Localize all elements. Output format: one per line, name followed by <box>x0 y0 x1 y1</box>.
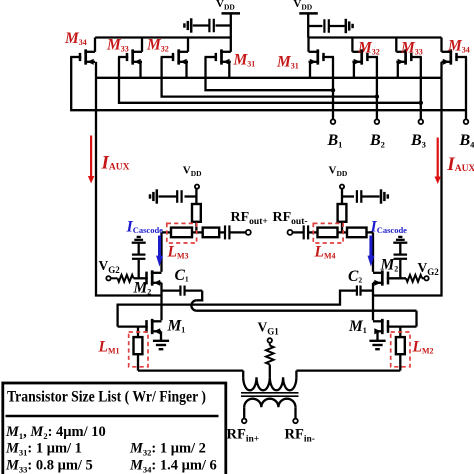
wire IAUX right <box>373 78 442 296</box>
ground (mid right, sideways) <box>381 189 388 203</box>
label M31 (left) <box>233 52 256 69</box>
decoupling capacitor (top right) <box>308 19 345 33</box>
wire drain M33 right <box>395 38 397 52</box>
wire source rail <box>96 77 442 79</box>
table row M34 <box>129 458 217 474</box>
wire drain M31 right <box>307 38 309 52</box>
label M31 (right) <box>276 54 299 71</box>
table border <box>3 383 226 474</box>
label M1 (left) <box>167 318 186 335</box>
transistor M2 (right) <box>373 270 389 286</box>
node B3 junction <box>419 101 423 105</box>
svg-text:VDD: VDD <box>216 0 235 12</box>
svg-text:Transistor Size List ( Wr/ Fin: Transistor Size List ( Wr/ Finger ) <box>7 389 206 406</box>
transistor M33 (right bank) <box>396 49 422 65</box>
wire M2 source / M1 drain left <box>160 283 162 321</box>
ground (top right, sideways) <box>346 19 353 33</box>
label ICascode right <box>370 219 408 236</box>
transistor M34 (right bank) <box>442 49 468 65</box>
ground (mid left, sideways) <box>150 189 157 203</box>
terminal B1 <box>331 119 336 124</box>
label C2 <box>348 268 362 285</box>
wire drain M31 left <box>230 38 232 52</box>
wire bus B1 <box>206 57 334 90</box>
wire drain M32 right <box>351 38 353 52</box>
table row M33 <box>5 458 93 474</box>
wire cross-couple A <box>118 291 353 327</box>
terminal RFout+ <box>246 230 251 235</box>
inductor output left <box>203 228 220 238</box>
table row M1 M2 <box>5 424 106 441</box>
label IAUX left <box>101 152 130 173</box>
label RFout+ <box>231 210 268 227</box>
label M32 <box>146 37 169 54</box>
label M32 (right) <box>357 40 380 57</box>
arrow ICascode right <box>368 236 375 267</box>
capacitor bypass VG2 left <box>132 243 146 278</box>
label LM3 <box>167 244 189 261</box>
inductor LM2 <box>396 327 405 371</box>
inductor feed (mid right) <box>338 204 347 232</box>
transformer secondary winding <box>244 399 295 419</box>
wire LM2 to transformer <box>296 369 400 371</box>
transistor M31 (left bank) <box>205 49 231 65</box>
arrow IAUX left <box>88 136 94 184</box>
wire M1 gate left <box>118 325 147 327</box>
wire M2 drain riser left <box>160 232 162 271</box>
terminal RFin- <box>293 419 298 424</box>
node B2 junction <box>375 94 379 98</box>
power VDD supply (mid left) <box>183 165 202 205</box>
wire M2 source / M1 drain right <box>372 283 374 321</box>
ground VG2 left (up) <box>132 237 146 243</box>
node B1 junction <box>331 88 335 92</box>
svg-text:M34: 1.4 μm/ 6: M34: 1.4 μm/ 6 <box>129 458 217 474</box>
label LM4 <box>314 244 336 261</box>
label M34 (right) <box>447 38 470 55</box>
decoupling capacitor (mid left) <box>159 190 197 203</box>
inductor LM3 <box>171 228 192 238</box>
wire source M32 left <box>185 62 187 78</box>
ground M1 left <box>153 331 169 349</box>
box LM1 (dashed) <box>129 332 148 367</box>
capacitor C1 <box>162 286 203 296</box>
terminal B3 <box>419 119 424 124</box>
wire source M32 right <box>353 62 355 78</box>
box LM2 (dashed) <box>391 332 410 367</box>
transistor M33 (left bank) <box>118 49 142 65</box>
wire VDD rail (left bank) <box>95 36 231 38</box>
power VDD supply (mid right) <box>329 165 348 205</box>
label B2 <box>369 132 385 150</box>
transistor M32 (left bank) <box>161 49 188 65</box>
wire LM1 to transformer <box>138 369 243 371</box>
wire cross-couple B with hop <box>191 291 416 311</box>
terminal RFout- <box>288 230 293 235</box>
wire output axis left <box>162 231 246 233</box>
wire drain M33 left <box>141 38 143 52</box>
wire M1 gate right <box>388 311 417 327</box>
terminal RFin+ <box>242 419 247 424</box>
decoupling capacitor (mid right) <box>342 190 380 203</box>
wire source M33 right <box>397 62 399 78</box>
label LM1 <box>98 339 120 356</box>
transistor M34 (left bank) <box>70 49 95 65</box>
power VDD supply (top right) <box>293 0 317 38</box>
wire source M34 left <box>95 62 97 78</box>
decoupling capacitor (top left) <box>193 19 231 33</box>
svg-text:M31: 1 μm/ 1: M31: 1 μm/ 1 <box>5 441 82 458</box>
arrow ICascode left <box>156 236 163 267</box>
terminal B2 <box>375 119 380 124</box>
label M2 (left) <box>133 280 152 297</box>
inductor LM1 <box>134 327 143 371</box>
label M33 <box>106 37 129 54</box>
transistor M2 (left) <box>146 270 162 286</box>
transistor M1 (right) <box>373 319 389 335</box>
ground (top left, sideways) <box>184 18 191 32</box>
wire B2 riser <box>376 57 378 119</box>
wire B3 riser <box>420 57 422 119</box>
wire source M31 left <box>228 62 230 78</box>
label LM2 <box>412 339 434 356</box>
transistor M1 (left) <box>146 319 162 335</box>
box LM3 (dashed) <box>167 223 197 243</box>
wire B4 riser <box>465 57 467 119</box>
wire bus B3 <box>119 57 421 103</box>
wire source M31 right <box>309 62 311 78</box>
transformer core <box>241 393 299 396</box>
wire drain M34 left <box>94 38 96 52</box>
ground M1 right <box>369 331 385 349</box>
wire source M33 left <box>139 62 141 78</box>
transformer primary winding <box>243 371 296 391</box>
capacitor output left <box>225 225 229 239</box>
power VDD supply (top left) <box>216 0 240 38</box>
svg-text:M32: 1 μm/ 2: M32: 1 μm/ 2 <box>129 441 206 458</box>
inductor LM4 <box>318 228 338 238</box>
inductor drain right <box>347 228 367 238</box>
capacitor bypass VG2 right <box>394 243 408 278</box>
terminal VG2 right <box>418 260 440 280</box>
label RFout- <box>273 210 308 227</box>
transistor M31 (right bank) <box>309 49 335 65</box>
label M34 <box>64 30 87 47</box>
terminal VG1 <box>258 320 280 343</box>
label C1 <box>175 267 189 284</box>
table title <box>7 389 206 406</box>
svg-text:VDD: VDD <box>293 0 312 12</box>
table rule <box>6 415 219 418</box>
resistor VG2 right <box>389 275 425 282</box>
arrow IAUX right <box>435 138 441 185</box>
wire VDD rail (right bank) <box>308 36 441 38</box>
capacitor output right <box>304 225 308 239</box>
label M2 (right) <box>380 257 399 274</box>
table row M31 <box>5 441 82 458</box>
terminal VG2 left <box>99 258 121 280</box>
wire drain M34 right <box>440 38 442 52</box>
inductor feed (mid left) <box>192 204 201 232</box>
capacitor C2 <box>352 286 374 296</box>
wire M2 drain riser right <box>372 232 374 271</box>
label RFin- <box>285 427 315 445</box>
label ICascode left <box>126 219 164 236</box>
resistor VG1 <box>266 343 274 378</box>
wire output axis right <box>293 231 374 233</box>
wire bus B2 <box>162 57 377 97</box>
wire B1 riser <box>332 57 334 119</box>
label B1 <box>327 132 343 150</box>
label IAUX right <box>446 154 474 175</box>
wire drain M32 left <box>187 38 189 52</box>
box LM4 (dashed) <box>313 223 343 243</box>
wire IAUX left <box>96 78 162 296</box>
wire bus B4 <box>71 57 466 110</box>
table row M32 <box>129 441 206 458</box>
label M1 (right) <box>348 318 367 335</box>
label RFin+ <box>227 427 260 445</box>
terminal B4 <box>464 119 469 124</box>
ground VG2 right (up) <box>393 237 407 243</box>
label B3 <box>410 132 426 150</box>
label B4 <box>459 132 474 150</box>
svg-text:M33: 0.8 μm/ 5: M33: 0.8 μm/ 5 <box>5 458 93 474</box>
resistor VG2 left <box>111 275 146 282</box>
label M33 (right) <box>400 40 423 57</box>
transistor M32 (right bank) <box>352 49 378 65</box>
wire source M34 right <box>440 62 442 78</box>
